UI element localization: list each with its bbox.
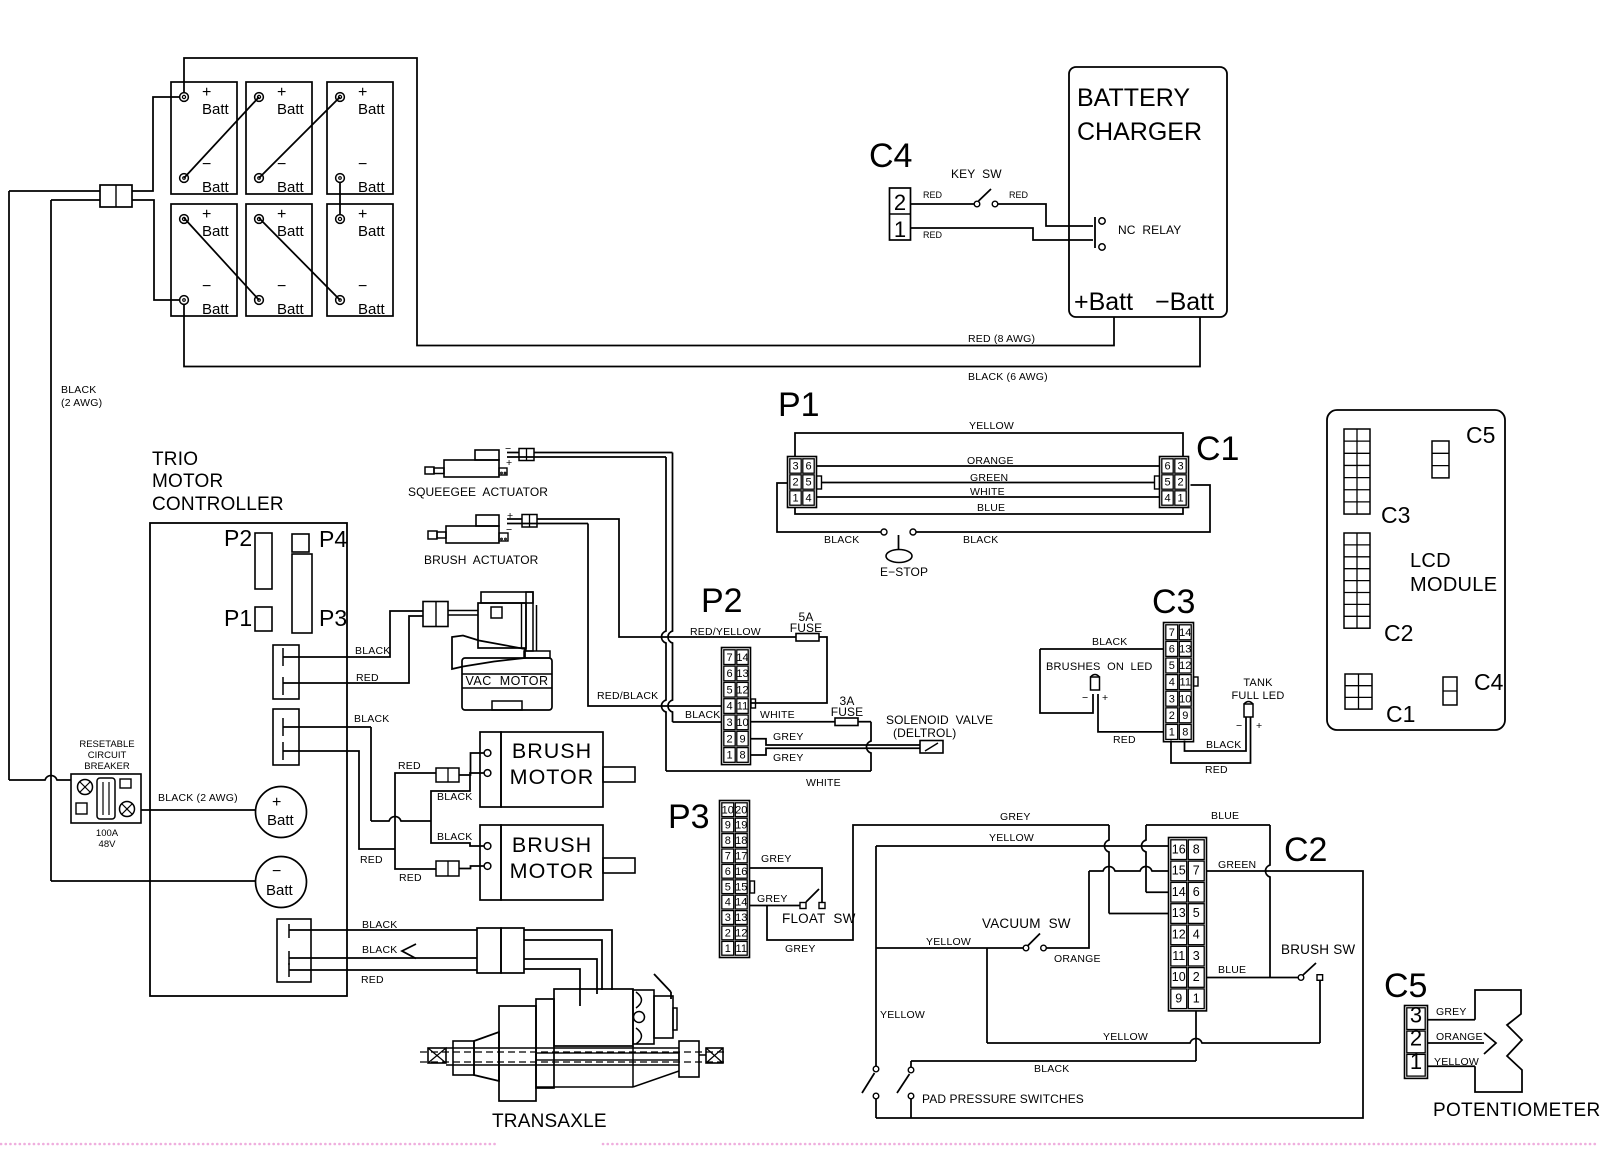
svg-text:BLACK: BLACK — [61, 384, 96, 396]
battery series link B2- to B3+ — [259, 97, 340, 178]
NC relay symbol — [1094, 217, 1096, 248]
wire transaxle connector to motor 2 — [524, 940, 602, 990]
svg-text:7: 7 — [725, 851, 731, 863]
wire WHITE P1 to C1 — [817, 496, 1159, 498]
svg-text:C5: C5 — [1466, 422, 1495, 448]
svg-text:BLACK: BLACK — [1206, 739, 1241, 751]
svg-text:−: − — [506, 524, 512, 536]
wire circuit breaker to +Batt stud BLACK (2 AWG) — [141, 809, 255, 811]
wire transaxle connector to motor 1 — [524, 930, 612, 990]
svg-text:1: 1 — [726, 750, 732, 762]
wire WHITE bottom run — [666, 770, 871, 772]
battery B5 terminals and labels — [255, 215, 264, 224]
wire BLACK branch to brush motor 1 — [431, 773, 484, 821]
svg-text:P1: P1 — [224, 605, 252, 631]
svg-text:BLACK: BLACK — [355, 645, 390, 657]
svg-text:CHARGER: CHARGER — [1077, 118, 1202, 146]
wire YELLOW vertical from vacuum switch area — [875, 846, 877, 1066]
transaxle motor body — [554, 989, 633, 1046]
connector C2 (8x2) — [1169, 838, 1207, 1011]
svg-text:13: 13 — [1172, 906, 1186, 920]
wire BLACK branch to brush motor 2 — [431, 821, 484, 846]
battery series link B1- to B2+ — [184, 97, 259, 178]
wire brush actuator lead RED/BLACK to P2-4 — [507, 523, 588, 525]
svg-text:+Batt: +Batt — [1074, 288, 1133, 316]
wire left rail BLACK 2 AWG down to circuit breaker — [8, 191, 10, 780]
wire battery B1+ to top frame to charger +Batt (RED 8 AWG) — [184, 58, 1114, 346]
transaxle gear housing — [536, 1086, 633, 1088]
svg-text:2: 2 — [1177, 477, 1183, 489]
wire GREEN C2-7 to pad pressure switches — [876, 871, 1363, 1118]
svg-text:FUSE: FUSE — [831, 705, 863, 719]
svg-text:12: 12 — [736, 684, 748, 696]
brush motor 1 inline connector — [436, 768, 459, 782]
transaxle axle centerline — [420, 1051, 728, 1053]
svg-text:9: 9 — [739, 733, 745, 745]
svg-text:C5: C5 — [1384, 967, 1427, 1005]
svg-text:YELLOW: YELLOW — [926, 936, 971, 948]
svg-text:Batt: Batt — [358, 301, 386, 318]
svg-text:RED: RED — [1009, 190, 1029, 200]
svg-text:1: 1 — [725, 943, 731, 955]
svg-text:BLACK: BLACK — [362, 919, 397, 931]
wire RED branch to brush motor 2 connector — [395, 849, 436, 869]
brush motor 2 body — [480, 825, 501, 900]
svg-text:RED/YELLOW: RED/YELLOW — [690, 626, 761, 638]
svg-text:BLACK: BLACK — [362, 944, 397, 956]
svg-text:2: 2 — [1193, 970, 1200, 984]
svg-text:SOLENOID VALVE: SOLENOID VALVE — [886, 713, 993, 727]
svg-text:CONTROLLER: CONTROLLER — [152, 494, 284, 515]
svg-text:Batt: Batt — [202, 301, 230, 318]
svg-text:6: 6 — [1169, 644, 1175, 656]
svg-text:3: 3 — [792, 461, 798, 473]
svg-text:RED (8 AWG): RED (8 AWG) — [968, 333, 1035, 345]
svg-text:4: 4 — [725, 897, 731, 909]
wire battery B4- down to charger -Batt (BLACK 6 AWG) — [184, 304, 1200, 367]
connector P3 (10x2) — [720, 801, 750, 958]
svg-text:Batt: Batt — [202, 101, 230, 118]
svg-text:+: + — [507, 510, 513, 522]
svg-text:3: 3 — [1177, 461, 1183, 473]
wire ORANGE vacuum switch to C2-15 — [1047, 871, 1090, 948]
wire BLACK controller to transaxle connector 1 — [289, 929, 477, 931]
wire B1+ to connector — [132, 97, 180, 191]
battery series link B4+ to B5- — [184, 218, 259, 300]
svg-text:WHITE: WHITE — [760, 709, 795, 721]
vac motor drive bar — [448, 610, 478, 612]
svg-text:+: + — [277, 84, 286, 101]
svg-text:4: 4 — [1193, 927, 1200, 941]
switch FLOAT SW — [800, 903, 806, 909]
wire YELLOW C5-1 to potentiometer — [1428, 1065, 1476, 1067]
svg-text:16: 16 — [1172, 842, 1186, 856]
svg-text:+: + — [277, 206, 286, 223]
wire 3A fuse to white bottom run — [858, 721, 871, 723]
svg-text:7: 7 — [1169, 627, 1175, 639]
svg-text:RED: RED — [398, 760, 421, 772]
connector P1 right tab — [817, 476, 822, 489]
brush motor 1 body — [480, 732, 501, 807]
transaxle motor cap — [633, 990, 654, 1044]
svg-text:YELLOW: YELLOW — [1434, 1056, 1479, 1068]
wire squeegee actuator lead 1 (to P2-3 BLACK) — [507, 452, 519, 454]
svg-text:ORANGE: ORANGE — [1436, 1031, 1483, 1043]
controller box — [150, 523, 347, 996]
connector C3 right tab — [1194, 677, 1199, 686]
svg-text:GREY: GREY — [773, 731, 804, 743]
svg-text:C3: C3 — [1381, 502, 1410, 528]
svg-text:3: 3 — [726, 717, 732, 729]
svg-text:TRANSAXLE: TRANSAXLE — [492, 1111, 607, 1132]
connector C4 (2-pin) — [890, 188, 911, 240]
svg-text:YELLOW: YELLOW — [1103, 1031, 1148, 1043]
svg-text:Batt: Batt — [277, 101, 305, 118]
svg-text:BLUE: BLUE — [1211, 810, 1239, 822]
battery B2 terminals and labels — [255, 93, 264, 102]
svg-text:8: 8 — [739, 750, 745, 762]
connector P1 (3x2) — [788, 457, 817, 508]
svg-text:RED: RED — [399, 872, 422, 884]
svg-text:13: 13 — [736, 668, 748, 680]
svg-text:2: 2 — [1410, 1026, 1422, 1051]
svg-text:6: 6 — [805, 461, 811, 473]
svg-text:3: 3 — [1410, 1002, 1422, 1027]
svg-text:6: 6 — [726, 668, 732, 680]
wire RED controller to vac motor connector — [283, 616, 423, 683]
wire GREY P2-8 to solenoid — [751, 748, 921, 755]
wire connector to second rail (to -Batt) — [51, 199, 100, 201]
svg-text:PAD PRESSURE SWITCHES: PAD PRESSURE SWITCHES — [922, 1092, 1084, 1106]
svg-text:+: + — [272, 794, 281, 811]
wire second rail down to -Batt circle — [50, 200, 52, 881]
circuit breaker body 100A 48V — [71, 774, 141, 823]
svg-text:14: 14 — [735, 897, 747, 909]
svg-text:BLACK: BLACK — [824, 534, 859, 546]
svg-text:GREEN: GREEN — [1218, 859, 1256, 871]
svg-text:10: 10 — [1179, 693, 1191, 705]
wire BLACK C2-1 to pad pressure switch — [1195, 1011, 1197, 1061]
wire C4 pin1 to NC relay (RED) — [911, 228, 1094, 240]
svg-text:100A: 100A — [96, 828, 119, 839]
svg-text:8: 8 — [725, 835, 731, 847]
svg-text:+: + — [506, 457, 512, 469]
svg-text:C3: C3 — [1152, 583, 1195, 621]
svg-text:RED: RED — [923, 190, 943, 200]
svg-text:−: − — [202, 278, 211, 295]
controller connector (vac motor) body — [273, 645, 299, 699]
svg-text:BRUSH SW: BRUSH SW — [1281, 942, 1355, 957]
svg-text:6: 6 — [1193, 885, 1200, 899]
svg-text:+: + — [358, 206, 367, 223]
svg-text:CIRCUIT: CIRCUIT — [88, 750, 127, 761]
battery charger box — [1069, 67, 1227, 317]
svg-text:WHITE: WHITE — [806, 777, 841, 789]
battery B6 terminals and labels — [336, 215, 345, 224]
wire transaxle connector to motor 4 — [524, 969, 580, 1006]
svg-text:6: 6 — [1164, 461, 1170, 473]
svg-text:+: + — [1256, 720, 1262, 732]
wire BLUE C2-2 to brush switch — [1207, 977, 1299, 979]
svg-text:C4: C4 — [1474, 669, 1504, 695]
svg-text:2: 2 — [725, 928, 731, 940]
wire RED controller to transaxle connector — [289, 969, 477, 971]
svg-text:BLACK: BLACK — [437, 791, 472, 803]
svg-text:NC RELAY: NC RELAY — [1118, 223, 1181, 237]
svg-text:C1: C1 — [1386, 701, 1415, 727]
wire GREY P3-6 to float switch — [750, 868, 822, 903]
svg-text:ORANGE: ORANGE — [1054, 953, 1101, 965]
svg-text:9: 9 — [725, 820, 731, 832]
svg-text:14: 14 — [736, 652, 748, 664]
svg-text:+: + — [358, 84, 367, 101]
LCD connector C1 grid — [1345, 674, 1372, 709]
svg-text:48V: 48V — [99, 839, 117, 850]
svg-text:4: 4 — [726, 701, 732, 713]
svg-text:RED: RED — [356, 672, 379, 684]
svg-text:FUSE: FUSE — [790, 621, 822, 635]
svg-text:−: − — [272, 863, 281, 880]
wire B4- to connector — [132, 200, 180, 300]
wire WHITE P2-10 to 3A fuse — [751, 721, 836, 723]
svg-text:7: 7 — [1193, 864, 1200, 878]
svg-text:C1: C1 — [1196, 430, 1239, 468]
svg-text:RED: RED — [1113, 734, 1136, 746]
controller connector (brush motors) body — [273, 709, 299, 765]
svg-text:15: 15 — [735, 881, 747, 893]
controller P3 header — [292, 554, 312, 633]
svg-text:Batt: Batt — [277, 223, 305, 240]
wire BLUE P1 to C1 — [795, 508, 1183, 515]
svg-text:8: 8 — [1193, 842, 1200, 856]
svg-text:YELLOW: YELLOW — [969, 420, 1014, 432]
wire GREY P3-4 to float switch — [750, 905, 800, 907]
wire RED branch to brush motor 1 connector — [395, 773, 436, 849]
svg-text:Batt: Batt — [277, 179, 305, 196]
svg-text:+: + — [202, 206, 211, 223]
battery series link B3- to B6+ — [339, 182, 341, 214]
svg-text:BRUSH: BRUSH — [512, 739, 592, 763]
svg-text:MOTOR: MOTOR — [510, 765, 595, 789]
svg-text:P3: P3 — [668, 798, 710, 836]
svg-text:4: 4 — [1169, 677, 1175, 689]
wire ORANGE C5-2 to potentiometer wiper — [1428, 1042, 1485, 1044]
svg-text:BLACK: BLACK — [1092, 636, 1127, 648]
svg-text:4: 4 — [805, 493, 811, 505]
brush actuator body — [446, 526, 499, 543]
svg-text:19: 19 — [735, 820, 747, 832]
svg-text:11: 11 — [1172, 949, 1185, 963]
fuse 3A — [835, 718, 858, 726]
svg-text:13: 13 — [735, 912, 747, 924]
wire 5A fuse to P2-11 — [751, 637, 828, 703]
svg-text:13: 13 — [1179, 644, 1191, 656]
wire BLUE run to C2-14 — [1142, 825, 1147, 892]
-Batt stud — [256, 857, 307, 908]
svg-text:RED: RED — [1205, 764, 1228, 776]
pink dotted separator line — [1, 1143, 497, 1146]
svg-text:7: 7 — [726, 652, 732, 664]
svg-text:12: 12 — [735, 928, 747, 940]
svg-text:GREY: GREY — [1436, 1006, 1467, 1018]
svg-text:5: 5 — [1164, 477, 1170, 489]
LCD connector C3 grid — [1344, 429, 1370, 514]
svg-text:2: 2 — [792, 477, 798, 489]
svg-text:GREEN: GREEN — [970, 472, 1008, 484]
wire GREEN P1 to C1 — [822, 482, 1155, 484]
svg-text:18: 18 — [735, 835, 747, 847]
svg-text:BREAKER: BREAKER — [84, 761, 130, 772]
svg-text:5: 5 — [1169, 660, 1175, 672]
svg-text:8: 8 — [1182, 727, 1188, 739]
svg-text:10: 10 — [736, 717, 748, 729]
svg-text:6: 6 — [725, 866, 731, 878]
wire RED controller to brush motors — [283, 751, 395, 849]
LCD connector C5 grid — [1432, 441, 1449, 478]
svg-text:WHITE: WHITE — [970, 486, 1005, 498]
vac motor fan scroll — [452, 636, 525, 670]
svg-text:Batt: Batt — [202, 223, 230, 240]
LCD connector C4 grid — [1443, 677, 1457, 705]
svg-text:C4: C4 — [869, 137, 912, 175]
svg-text:SQUEEGEE ACTUATOR: SQUEEGEE ACTUATOR — [408, 485, 548, 499]
svg-text:MOTOR: MOTOR — [510, 859, 595, 883]
svg-text:POTENTIOMETER: POTENTIOMETER — [1433, 1100, 1600, 1121]
squeegee actuator inline connector — [519, 449, 534, 461]
svg-text:−: − — [1236, 720, 1242, 732]
pad pressure switch 2 — [908, 1067, 914, 1073]
svg-text:Batt: Batt — [266, 882, 294, 899]
svg-text:10: 10 — [722, 804, 734, 816]
wire BLACK P1 to E-STOP to C1 — [777, 483, 881, 532]
transaxle main plate — [499, 1006, 536, 1101]
potentiometer wiper arrow — [1484, 1033, 1496, 1054]
wire ORANGE P1 to C1 — [817, 465, 1159, 467]
squeegee actuator body — [444, 460, 499, 477]
connector P2 right tab — [751, 699, 756, 708]
svg-text:BATTERY: BATTERY — [1077, 84, 1190, 112]
wire squeegee actuator lead 2 (to white run) — [507, 456, 666, 458]
svg-text:11: 11 — [736, 943, 747, 955]
svg-text:BLACK: BLACK — [685, 709, 720, 721]
inline connector (battery main leads) — [100, 185, 132, 207]
battery series link B5+ to B6- — [259, 218, 340, 300]
svg-text:Batt: Batt — [202, 179, 230, 196]
svg-text:11: 11 — [737, 701, 748, 713]
LCD module box — [1327, 410, 1505, 730]
vac motor inline connector — [423, 602, 448, 627]
svg-text:RESETABLE: RESETABLE — [79, 739, 134, 750]
svg-text:14: 14 — [1172, 885, 1186, 899]
svg-text:BLACK: BLACK — [963, 534, 998, 546]
svg-text:5: 5 — [726, 684, 732, 696]
svg-text:+: + — [1102, 692, 1108, 704]
svg-text:BRUSH ACTUATOR: BRUSH ACTUATOR — [424, 553, 539, 567]
connector C1 (3x2) — [1160, 457, 1189, 508]
connector C1 left tab — [1155, 476, 1160, 489]
svg-text:GREY: GREY — [785, 943, 816, 955]
svg-text:BRUSHES ON LED: BRUSHES ON LED — [1046, 661, 1153, 673]
svg-text:RED: RED — [360, 854, 383, 866]
wire C4 pin2 to key switch (RED) — [911, 203, 975, 205]
svg-text:12: 12 — [1179, 660, 1191, 672]
svg-text:RED: RED — [923, 230, 943, 240]
wire BLACK controller to brush motors — [283, 726, 371, 728]
svg-text:−: − — [1082, 692, 1088, 704]
svg-text:VAC MOTOR: VAC MOTOR — [465, 674, 548, 688]
svg-text:GREY: GREY — [761, 853, 792, 865]
svg-text:VACUUM SW: VACUUM SW — [982, 916, 1071, 931]
wire YELLOW P1-3 to C1 — [795, 433, 1183, 457]
svg-text:Batt: Batt — [358, 101, 386, 118]
connector C5 (3x1) — [1405, 1006, 1428, 1079]
svg-text:RED/BLACK: RED/BLACK — [597, 690, 658, 702]
vac motor lower housing VAC MOTOR — [462, 658, 552, 710]
svg-text:TRIO: TRIO — [152, 449, 198, 470]
+Batt stud — [256, 787, 307, 838]
svg-text:+: + — [202, 84, 211, 101]
svg-text:P2: P2 — [224, 525, 252, 551]
switch E-STOP — [881, 529, 887, 535]
svg-text:5: 5 — [725, 881, 731, 893]
svg-text:TANK: TANK — [1243, 677, 1273, 689]
svg-text:BLACK (6 AWG): BLACK (6 AWG) — [968, 371, 1048, 383]
wire GREY P2-9 to solenoid — [751, 739, 921, 745]
svg-text:1: 1 — [1169, 727, 1175, 739]
pad pressure switch 1 — [873, 1066, 879, 1072]
connector C3 (7x2) — [1164, 623, 1194, 742]
svg-text:1: 1 — [1193, 991, 1200, 1005]
connector P3 right tab — [750, 881, 755, 893]
svg-text:(2 AWG): (2 AWG) — [61, 397, 102, 409]
svg-text:(DELTROL): (DELTROL) — [893, 726, 956, 740]
svg-text:2: 2 — [894, 190, 906, 215]
svg-text:MOTOR: MOTOR — [152, 471, 223, 492]
svg-text:GREY: GREY — [757, 893, 788, 905]
svg-text:KEY SW: KEY SW — [951, 167, 1002, 181]
transaxle right hub — [706, 1048, 723, 1063]
svg-text:−: − — [358, 278, 367, 295]
wire BLACK C3-8 to tank full LED — [1185, 717, 1247, 751]
wire RED brushes-on LED to C3-1 — [1098, 694, 1164, 732]
transaxle vent diagonal — [654, 974, 671, 992]
svg-text:3: 3 — [1193, 949, 1200, 963]
controller transaxle connector body — [277, 919, 311, 982]
wire brush motor 2 connector to terminal — [459, 866, 484, 869]
svg-text:P3: P3 — [319, 605, 347, 631]
wire transaxle connector to motor 3 — [524, 959, 597, 994]
svg-text:9: 9 — [1175, 991, 1182, 1005]
battery bank outline B1-B6 — [171, 82, 237, 194]
svg-text:BLUE: BLUE — [977, 502, 1005, 514]
svg-text:FLOAT SW: FLOAT SW — [782, 911, 856, 926]
svg-text:15: 15 — [1172, 864, 1186, 878]
svg-text:P1: P1 — [778, 386, 820, 424]
svg-text:Batt: Batt — [358, 179, 386, 196]
svg-text:RED: RED — [361, 974, 384, 986]
wire RED C3-1 to tank full LED — [1171, 717, 1251, 763]
transaxle axle — [446, 1047, 679, 1049]
brush motor 2 inline connector — [436, 861, 459, 876]
battery B4 terminals and labels — [180, 215, 189, 224]
svg-text:10: 10 — [1172, 970, 1186, 984]
svg-text:Batt: Batt — [358, 223, 386, 240]
wire connector to left rail (to circuit breaker) — [9, 190, 100, 192]
wire GREY float switch run to C2-13 — [767, 825, 1109, 940]
transaxle left hub — [428, 1048, 446, 1063]
svg-text:2: 2 — [1169, 710, 1175, 722]
transaxle right bearing — [679, 1041, 699, 1077]
